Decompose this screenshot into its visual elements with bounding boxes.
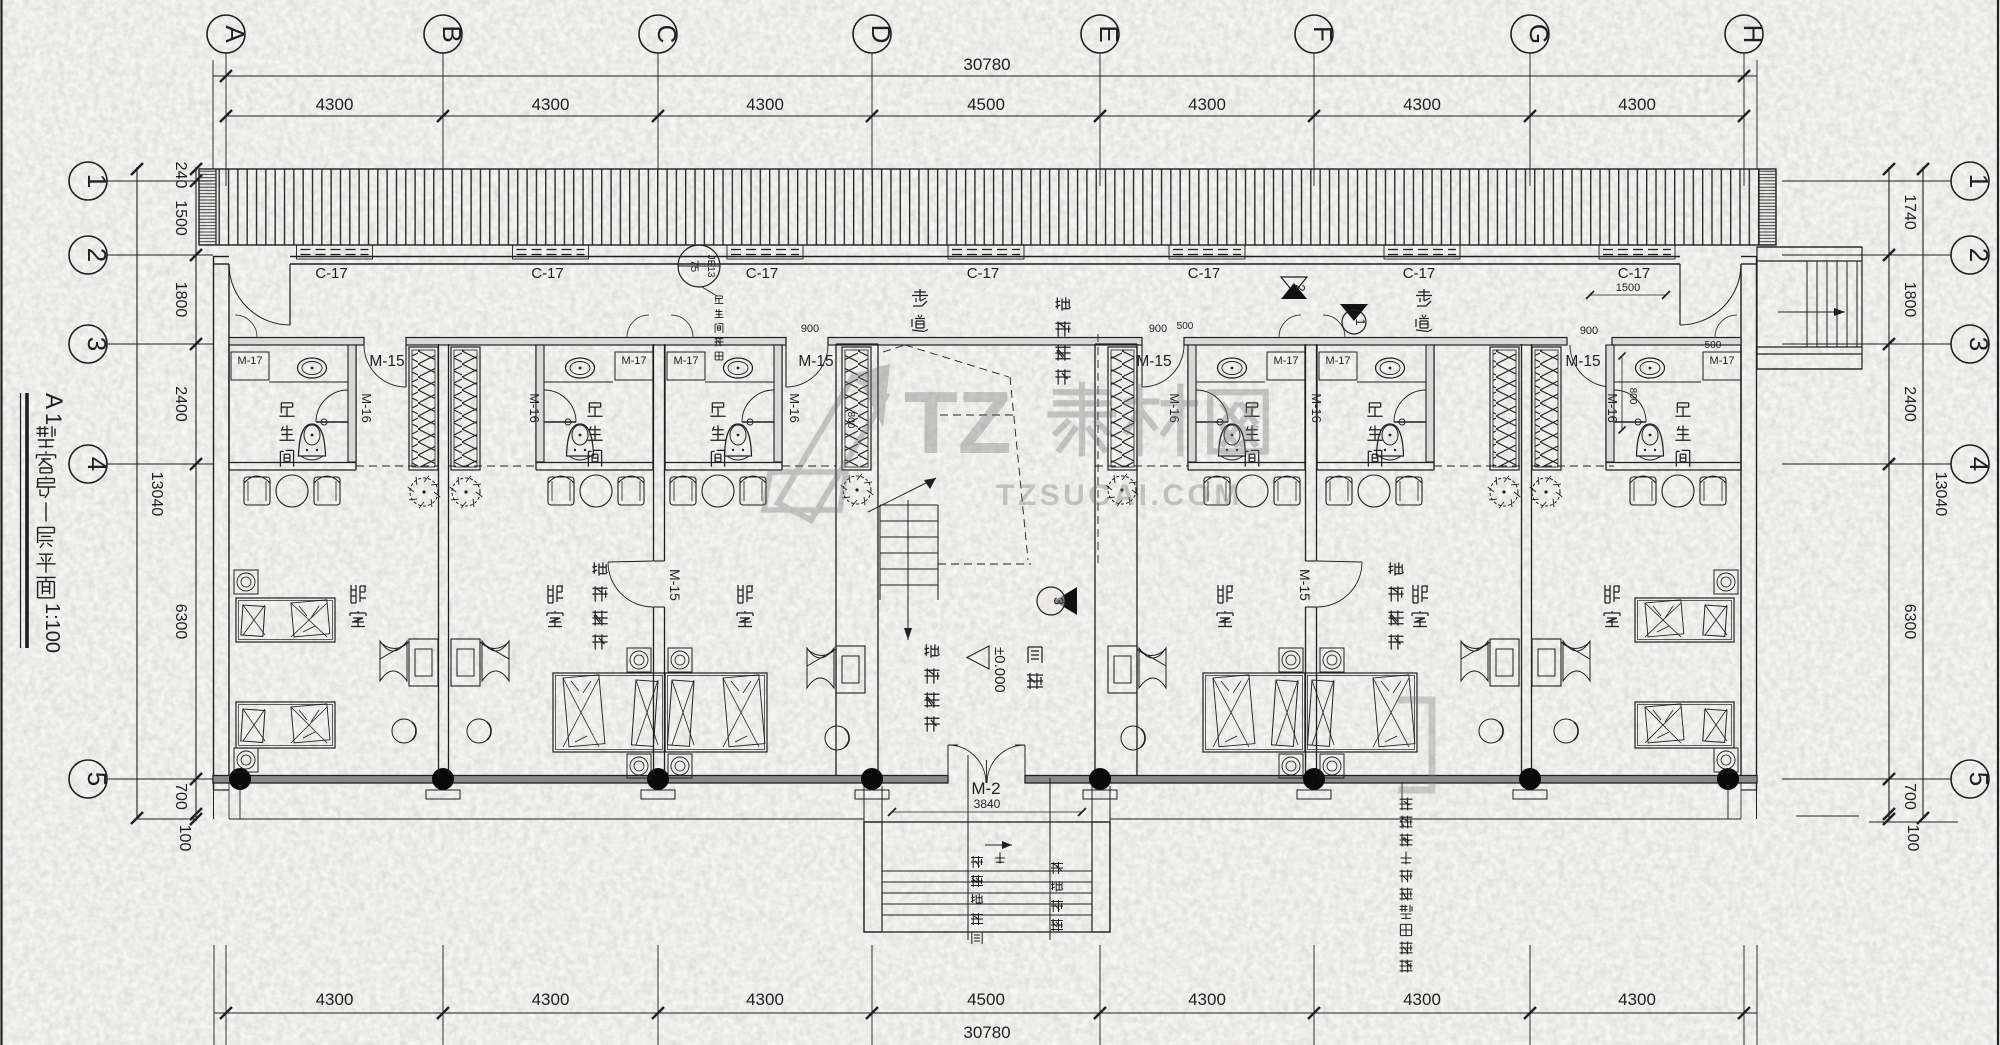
svg-text:M-16: M-16 — [527, 393, 542, 423]
svg-text:3: 3 — [1051, 597, 1067, 605]
svg-text:F: F — [1308, 26, 1338, 42]
svg-text:4300: 4300 — [1188, 95, 1226, 114]
svg-text:4: 4 — [1964, 457, 1994, 471]
svg-text:1: 1 — [1353, 318, 1368, 325]
svg-text:6300: 6300 — [172, 604, 189, 640]
svg-text:30780: 30780 — [963, 1023, 1010, 1042]
svg-text:C-17: C-17 — [1618, 265, 1651, 282]
svg-text:M-16: M-16 — [787, 393, 802, 423]
svg-text:500: 500 — [1705, 340, 1722, 351]
svg-text:C: C — [652, 25, 682, 44]
svg-text:13040: 13040 — [148, 472, 165, 517]
svg-text:C-17: C-17 — [1403, 265, 1436, 282]
svg-text:C-17: C-17 — [746, 265, 779, 282]
svg-text:C-17: C-17 — [1188, 265, 1221, 282]
svg-text:M-16: M-16 — [359, 393, 374, 423]
svg-text:800: 800 — [845, 412, 856, 429]
svg-text:4500: 4500 — [967, 990, 1005, 1009]
svg-text:100: 100 — [176, 825, 193, 852]
svg-text:3: 3 — [1964, 337, 1994, 351]
svg-text:±0.000: ±0.000 — [991, 647, 1008, 693]
svg-text:4300: 4300 — [1618, 990, 1656, 1009]
svg-text:2400: 2400 — [172, 386, 189, 422]
svg-text:700: 700 — [172, 783, 189, 810]
svg-text:13040: 13040 — [1932, 472, 1949, 517]
svg-text:700: 700 — [1901, 783, 1918, 810]
svg-text:4300: 4300 — [532, 990, 570, 1009]
svg-text:240: 240 — [172, 162, 189, 189]
svg-text:4300: 4300 — [746, 990, 784, 1009]
svg-text:1: 1 — [41, 413, 66, 425]
svg-text:900: 900 — [1580, 325, 1598, 337]
svg-text:M-15: M-15 — [667, 569, 683, 601]
svg-text:800: 800 — [1627, 388, 1638, 405]
svg-text:1500: 1500 — [172, 200, 189, 236]
svg-text:C-17: C-17 — [531, 265, 564, 282]
svg-text:6300: 6300 — [1901, 604, 1918, 640]
svg-text:M-16: M-16 — [1605, 393, 1620, 423]
svg-text:M-17: M-17 — [1273, 355, 1298, 367]
svg-text:2: 2 — [1293, 284, 1308, 291]
svg-text:4300: 4300 — [1403, 990, 1441, 1009]
svg-text:M-17: M-17 — [237, 355, 262, 367]
svg-text:1:100: 1:100 — [41, 603, 63, 653]
svg-text:A: A — [40, 393, 67, 409]
svg-text:M-17: M-17 — [621, 355, 646, 367]
svg-text:4300: 4300 — [746, 95, 784, 114]
svg-text:TZ: TZ — [904, 373, 1012, 472]
svg-text:4300: 4300 — [532, 95, 570, 114]
svg-text:4300: 4300 — [1618, 95, 1656, 114]
svg-text:TZSUCAI.COM: TZSUCAI.COM — [996, 479, 1243, 512]
svg-text:1740: 1740 — [1901, 194, 1918, 230]
svg-text:C-17: C-17 — [315, 265, 348, 282]
svg-text:1500: 1500 — [1616, 282, 1640, 294]
svg-text:1800: 1800 — [1901, 282, 1918, 318]
svg-text:30780: 30780 — [963, 55, 1010, 74]
svg-text:M-16: M-16 — [1309, 393, 1324, 423]
svg-text:500: 500 — [1177, 321, 1194, 332]
svg-text:M-15: M-15 — [1136, 353, 1171, 370]
svg-text:M-17: M-17 — [1325, 355, 1350, 367]
svg-text:A: A — [220, 25, 250, 43]
svg-text:JE13: JE13 — [705, 255, 716, 278]
svg-text:G: G — [1524, 24, 1554, 44]
svg-text:2: 2 — [1964, 248, 1994, 262]
svg-text:M-15: M-15 — [798, 353, 833, 370]
svg-text:M-15: M-15 — [369, 353, 404, 370]
svg-text:M-2: M-2 — [971, 779, 1000, 798]
svg-text:M-15: M-15 — [1565, 353, 1600, 370]
svg-text:E: E — [1094, 25, 1124, 42]
svg-text:3840: 3840 — [974, 797, 1001, 811]
svg-text:5: 5 — [1964, 772, 1994, 786]
svg-text:2400: 2400 — [1901, 386, 1918, 422]
svg-text:M-17: M-17 — [1709, 355, 1734, 367]
svg-text:1: 1 — [1964, 174, 1994, 188]
svg-text:4300: 4300 — [316, 990, 354, 1009]
svg-text:H: H — [1738, 25, 1768, 44]
svg-text:4300: 4300 — [1403, 95, 1441, 114]
svg-text:M-17: M-17 — [673, 355, 698, 367]
svg-text:D: D — [866, 25, 896, 44]
svg-text:100: 100 — [1904, 825, 1921, 852]
svg-text:4300: 4300 — [1188, 990, 1226, 1009]
svg-text:B: B — [437, 25, 467, 42]
svg-text:75: 75 — [688, 260, 700, 272]
svg-text:900: 900 — [801, 323, 819, 335]
svg-text:900: 900 — [1149, 323, 1167, 335]
svg-text:1800: 1800 — [172, 282, 189, 318]
svg-text:4300: 4300 — [316, 95, 354, 114]
svg-text:C-17: C-17 — [967, 265, 1000, 282]
svg-text:M-15: M-15 — [1297, 569, 1313, 601]
svg-text:4500: 4500 — [967, 95, 1005, 114]
